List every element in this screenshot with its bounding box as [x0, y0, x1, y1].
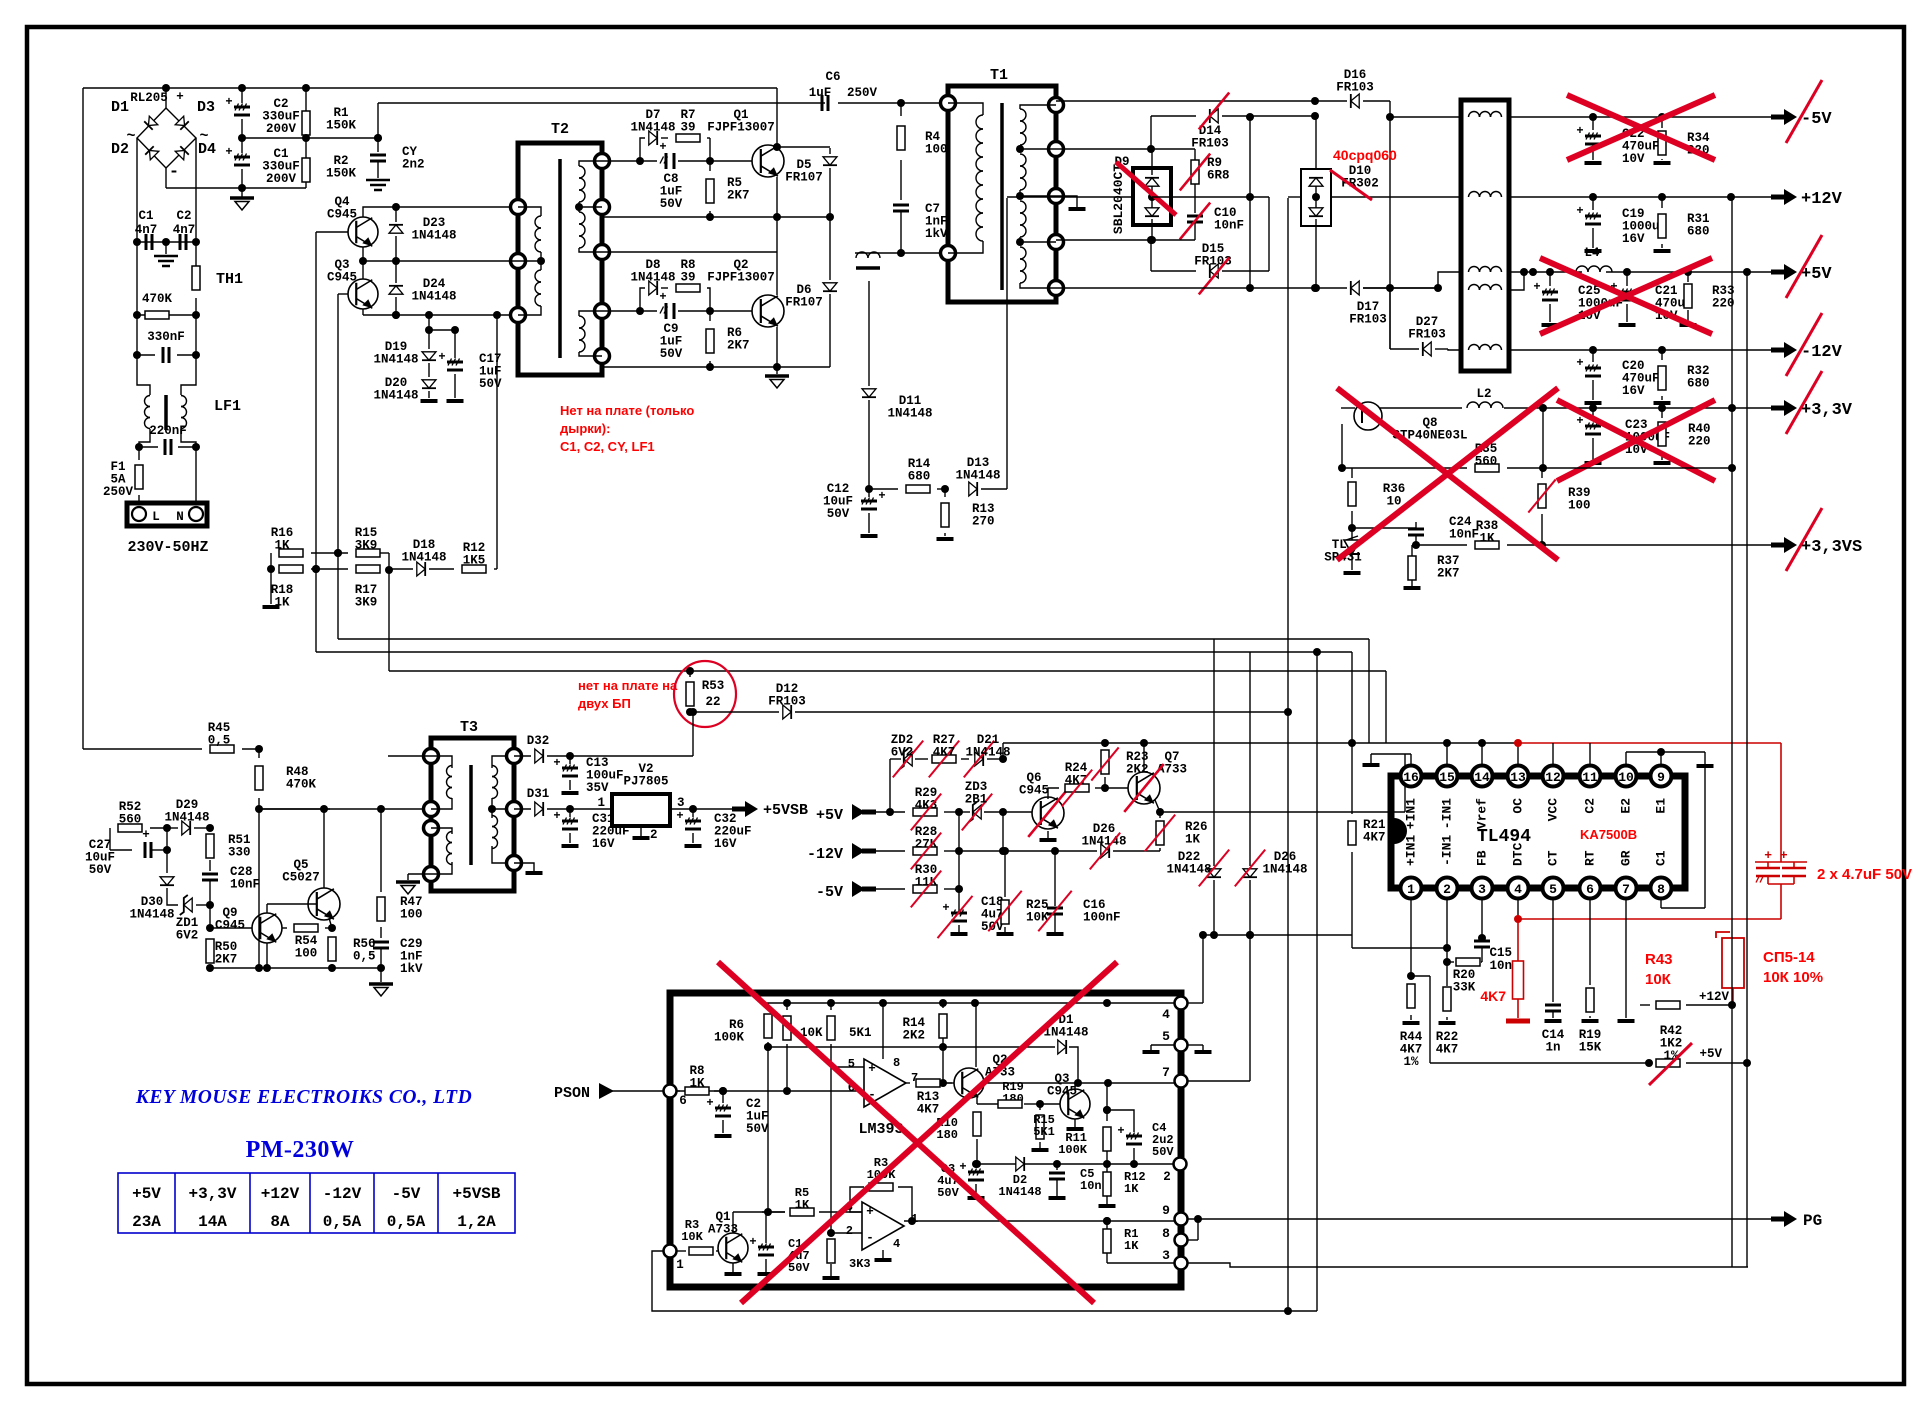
wire Q8 gate/source node: [1338, 464, 1346, 472]
wire T2 pin connections: [363, 260, 518, 262]
svg-text:100: 100: [1568, 499, 1591, 513]
wire Q3/Q4 emitters: [362, 247, 364, 261]
resistor R28 27K: [913, 847, 937, 855]
svg-text:2K2: 2K2: [1126, 763, 1149, 777]
output arrow +3,3VS: [1771, 543, 1784, 548]
wire Q2 collector riser: [975, 1003, 977, 1067]
diode D6 FR107: [829, 217, 831, 280]
svg-text:6V2: 6V2: [891, 746, 914, 760]
wire: [316, 231, 348, 233]
svg-text:50V: 50V: [937, 1186, 959, 1200]
svg-text:0,5: 0,5: [208, 734, 231, 748]
V2 ground: [640, 826, 642, 836]
svg-text:50V: 50V: [479, 377, 502, 391]
TL1 symbol: [1344, 540, 1360, 554]
svg-text:3: 3: [677, 796, 685, 810]
transistor Q1b A733: [718, 1233, 748, 1263]
wire Q5 emitter down: [329, 918, 332, 928]
wire: [838, 102, 948, 104]
diode D30 1N4148: [160, 877, 174, 885]
wire x=1288 vertical: [1287, 198, 1289, 1311]
transistor Q3 C945: [348, 279, 378, 309]
T2 left pins: [511, 200, 526, 215]
T1 center tap ground: [1056, 196, 1077, 207]
svg-text:D31: D31: [527, 787, 550, 801]
svg-text:8: 8: [1162, 1226, 1170, 1241]
svg-text:D32: D32: [527, 734, 550, 748]
svg-text:FR107: FR107: [785, 296, 823, 310]
resistor R45 0,5: [83, 748, 202, 750]
svg-text:4: 4: [1514, 882, 1522, 897]
svg-text:1n: 1n: [1545, 1041, 1560, 1055]
choke winding +12V: [1469, 192, 1480, 197]
zener ZD3 2B1 (crossed): [973, 805, 981, 819]
T3 right coils: [492, 756, 514, 768]
wire: [1351, 528, 1353, 540]
svg-text:2B1: 2B1: [965, 793, 988, 807]
diode D26 1N4148 (crossed): [1249, 652, 1251, 866]
wire: [83, 87, 777, 89]
capacitor 220nF: [164, 439, 167, 455]
wire: [733, 1211, 768, 1213]
red X over C23/R40: [1557, 400, 1715, 481]
svg-text:22: 22: [705, 695, 720, 709]
wire pin4 red: [1517, 899, 1519, 919]
diode D23 1N4148: [395, 207, 397, 222]
T2 right coils: [579, 166, 585, 178]
ground: [421, 399, 438, 403]
svg-text:+: +: [878, 489, 885, 503]
capacitor C1 330uF 200V: [241, 138, 243, 153]
capacitor C15 10n: [1474, 940, 1490, 943]
resistor R12b 1K: [1106, 1164, 1108, 1172]
wire Q8 source down: [1341, 424, 1343, 468]
svg-text:SBL2040CT: SBL2040CT: [1111, 164, 1126, 234]
red slash +3,3VS: [1786, 508, 1822, 571]
svg-text:5K1: 5K1: [1033, 1125, 1055, 1139]
wire y=935 link: [1203, 934, 1352, 936]
resistor R43 (black): [1656, 1001, 1680, 1009]
wire Q8 drain to L2: [1380, 407, 1462, 409]
svg-text:+: +: [1576, 204, 1583, 218]
pin 1 TL494 bottom: [1401, 878, 1422, 899]
resistor 10K: [786, 1003, 788, 1010]
diode D8 1N4148: [640, 288, 645, 311]
svg-text:+: +: [1533, 280, 1540, 294]
svg-text:T2: T2: [551, 121, 569, 138]
svg-text:FR103: FR103: [768, 695, 806, 709]
svg-text:560: 560: [1475, 455, 1498, 469]
svg-text:14: 14: [1474, 770, 1490, 785]
wire Q4 collector top: [363, 207, 518, 217]
svg-text:16V: 16V: [714, 837, 737, 851]
svg-text:100: 100: [925, 143, 948, 157]
svg-text:+12V: +12V: [1699, 990, 1730, 1004]
R51 body: [206, 834, 214, 858]
transistor Q8 STP40NE03L (MOSFET, crossed): [1354, 402, 1382, 430]
pin 9 TL494 top: [1651, 766, 1672, 787]
wire: [337, 294, 339, 639]
svg-text:16V: 16V: [1622, 384, 1645, 398]
wire: [267, 565, 275, 573]
svg-text:1N4148: 1N4148: [887, 407, 932, 421]
diode D14 FR103 (crossed): [1150, 116, 1152, 149]
red wire from pin13: [1518, 742, 1781, 744]
svg-text:Vref: Vref: [1474, 798, 1489, 829]
svg-text:6V2: 6V2: [176, 929, 199, 943]
wire Q9 emitter: [266, 943, 268, 968]
wire mid bus: [242, 137, 378, 139]
svg-text:DTC: DTC: [1510, 842, 1525, 866]
svg-text:8: 8: [893, 1056, 900, 1070]
svg-text:KEY MOUSE ELECTROIKS CO., LTD: KEY MOUSE ELECTROIKS CO., LTD: [135, 1087, 472, 1108]
svg-text:+: +: [225, 145, 232, 159]
svg-text:5: 5: [1549, 882, 1557, 897]
svg-text:-5V: -5V: [816, 884, 843, 901]
wire pin2 down: [1446, 899, 1448, 986]
resistor R22 4K7: [1443, 987, 1451, 1011]
wire pin1 down: [1410, 899, 1412, 976]
svg-text:4K3: 4K3: [915, 799, 938, 813]
svg-text:C5027: C5027: [282, 871, 320, 885]
svg-text:D3: D3: [197, 99, 215, 116]
C27 plates: [144, 842, 147, 858]
wire +5V rail: [1509, 271, 1582, 273]
wire opamp2 out: [904, 1220, 1181, 1222]
svg-text:2n2: 2n2: [402, 158, 425, 172]
output choke L1 box: [1461, 100, 1509, 371]
wire pin16 gnd: [1410, 754, 1412, 765]
T2 left coils: [535, 216, 541, 228]
pin 7 TL494 bottom: [1616, 878, 1637, 899]
red capacitors 2 x 4.7uF 50V: [1755, 861, 1807, 863]
svg-text:10nF: 10nF: [1449, 528, 1479, 542]
wire: [165, 168, 167, 188]
Q6 emitter ground: [1047, 831, 1049, 838]
wire: [139, 429, 150, 447]
svg-text:10: 10: [1618, 770, 1634, 785]
choke winding +5V b: [1469, 285, 1480, 290]
wire LM393 pin3 to x=1748 riser: [1188, 1263, 1748, 1267]
svg-text:FR107: FR107: [785, 171, 823, 185]
resistor R24 4K7 (crossed): [1065, 784, 1089, 792]
wire D9 top: [1151, 149, 1153, 175]
svg-text:5: 5: [848, 1057, 855, 1071]
resistor R25 10K (slashed): [1001, 847, 1009, 855]
wire T3 pin top from R45 node: [388, 755, 431, 757]
svg-text:C945: C945: [1019, 784, 1049, 798]
resistor R44 4K7 1%: [1407, 984, 1415, 1008]
wire pin1 branch: [1411, 975, 1430, 977]
svg-text:OC: OC: [1510, 798, 1525, 814]
svg-text:нет на плате на: нет на плате на: [578, 678, 678, 693]
svg-text:4: 4: [893, 1237, 900, 1251]
wire: [1606, 271, 1774, 273]
wire Q7 collector riser: [1143, 743, 1145, 772]
svg-text:+5V: +5V: [132, 1185, 161, 1203]
svg-text:680: 680: [1687, 225, 1710, 239]
svg-text:KA7500B: KA7500B: [1580, 827, 1637, 842]
svg-text:2: 2: [846, 1224, 853, 1238]
svg-text:220: 220: [1712, 297, 1735, 311]
IC LM393 box: [670, 993, 1181, 1287]
svg-text:+: +: [942, 901, 949, 915]
wire LM393 pin9 to PG: [1188, 1218, 1771, 1220]
wire: [428, 315, 430, 345]
capacitor C28 10nF: [202, 873, 218, 876]
ground: [380, 968, 382, 982]
common-mode choke LF1: [145, 396, 151, 407]
output arrow +12V: [1771, 195, 1784, 200]
svg-text:4: 4: [1162, 1007, 1170, 1022]
capacitor C4 2u2 50V: [1126, 1135, 1142, 1138]
wire: [166, 828, 168, 873]
wire: [602, 310, 640, 312]
wire emitter bus 2: [602, 366, 830, 368]
zener ZD2 6V2 (crossed): [904, 752, 912, 766]
diode D29 1N4148: [182, 821, 190, 835]
capacitor C21 470uF 10V (crossed): [1626, 272, 1628, 286]
svg-text:+: +: [659, 290, 666, 304]
R1b body: [1103, 1217, 1111, 1225]
svg-text:СП5-14: СП5-14: [1763, 949, 1815, 966]
capacitor C9 1uF 50V: [640, 310, 657, 312]
wire: [1194, 184, 1196, 213]
ground: [776, 367, 778, 374]
svg-text:PG: PG: [1803, 1212, 1822, 1230]
resistor 5K1: [830, 1003, 832, 1010]
wire: [137, 241, 196, 243]
svg-text:C1: C1: [1653, 850, 1668, 866]
svg-text:7: 7: [1162, 1065, 1170, 1080]
wire standby top bus y=809: [259, 808, 330, 810]
capacitor C22 470uF 10V (crossed): [1592, 117, 1594, 130]
pin 11 TL494 top: [1580, 766, 1601, 787]
svg-text:15: 15: [1439, 770, 1455, 785]
svg-text:C945: C945: [327, 208, 357, 222]
svg-text:двух БП: двух БП: [578, 696, 631, 711]
capacitor C27 10uF 50V: [110, 849, 132, 851]
capacitor C2 4n7: [179, 234, 182, 250]
thermistor TH1: [192, 266, 200, 290]
svg-text:4K7: 4K7: [1363, 831, 1386, 845]
wire T1 pin4 row: [1056, 239, 1195, 241]
transistor Q4 C945: [348, 217, 378, 247]
red slash -12V: [1786, 313, 1822, 376]
svg-text:33K: 33K: [1453, 981, 1476, 995]
output arrow -12V: [1771, 348, 1784, 353]
resistor R13 270: [944, 489, 946, 497]
svg-text:1N4148: 1N4148: [373, 353, 418, 367]
fuse F1 5A 250V: [138, 447, 140, 460]
pin 2 TL494 bottom: [1437, 878, 1458, 899]
diode D22 1N4148 (crossed): [1213, 639, 1215, 866]
svg-text:1N4148: 1N4148: [998, 1185, 1041, 1199]
wire Q2b emitter down: [976, 1097, 978, 1104]
T1 secondary coils: [1020, 109, 1026, 121]
svg-text:9: 9: [1162, 1203, 1170, 1218]
red slash over D9: [1116, 162, 1176, 215]
svg-text:FR103: FR103: [1191, 137, 1229, 151]
capacitor C7 1nF 1kV: [893, 204, 909, 207]
svg-text:+: +: [1117, 1124, 1124, 1138]
red slash +5V: [1786, 235, 1822, 298]
wire Q1 emitter down: [776, 177, 778, 217]
svg-text:+IN1: +IN1: [1403, 835, 1418, 866]
choke winding +5V a: [1469, 267, 1480, 273]
svg-text:R53: R53: [702, 679, 725, 693]
svg-text:E1: E1: [1653, 798, 1668, 814]
wire: [338, 293, 348, 295]
wire: [1704, 766, 1706, 908]
wire Q6 collector to R24: [1048, 788, 1059, 799]
diode D26 1N4148 (crossed): [959, 850, 1097, 852]
resistor R34 220 (crossed): [1661, 117, 1663, 128]
svg-text:2K7: 2K7: [1437, 567, 1460, 581]
wire top bus y=743 into TL494: [1003, 742, 1517, 744]
wire T2 right mid to Q collector mid: [602, 251, 777, 253]
svg-text:N: N: [176, 510, 184, 524]
resistor R11 100K: [1106, 1083, 1108, 1121]
svg-text:L4: L4: [1584, 246, 1600, 260]
wire: [1107, 1262, 1174, 1264]
wire: [363, 314, 518, 316]
wire: [315, 232, 317, 652]
svg-text:+5V: +5V: [816, 807, 843, 824]
wire: [1002, 743, 1004, 759]
choke winding -12V: [1469, 345, 1480, 351]
wire Q1b collector up: [732, 1212, 734, 1233]
svg-text:4K7: 4K7: [1480, 988, 1506, 1004]
C18 plates: [951, 912, 967, 915]
resistor R48 470K: [258, 749, 260, 758]
svg-text:C945: C945: [327, 271, 357, 285]
svg-text:E2: E2: [1618, 798, 1633, 814]
svg-text:50V: 50V: [1152, 1145, 1174, 1159]
wire: [395, 255, 397, 261]
transistor Q2b A733: [954, 1068, 984, 1098]
wire: [776, 88, 778, 146]
wire Q5 collector up: [323, 809, 325, 888]
wire: [945, 1082, 954, 1084]
wire: [1504, 407, 1774, 409]
red slash -5V: [1786, 80, 1822, 143]
bridge rectifier RL205: [165, 88, 167, 108]
transistor Q2 FJPF13007: [752, 295, 784, 327]
svg-text:14A: 14A: [198, 1213, 227, 1231]
wire pin12 up: [1552, 743, 1554, 765]
wire rows: [270, 552, 272, 554]
svg-text:+: +: [1576, 124, 1583, 138]
svg-text:+3,3V: +3,3V: [1801, 401, 1853, 420]
rectifier D9 SBL2040CT: [1133, 168, 1171, 225]
transistor Q1 FJPF13007: [752, 145, 784, 177]
svg-text:3: 3: [1478, 882, 1486, 897]
wire: [677, 1090, 680, 1092]
wire line B: [378, 102, 825, 104]
capacitor C31 220uF 16V: [569, 809, 571, 817]
svg-text:10К: 10К: [1645, 971, 1672, 988]
wire R12 up to T2 area: [496, 315, 498, 569]
wire Q7 emitter node: [1155, 800, 1160, 812]
wire R43 left: [1640, 1004, 1650, 1006]
wire LM393 pin1 to bottom bus: [652, 1251, 1317, 1311]
svg-text:+3,3V: +3,3V: [188, 1185, 236, 1203]
resistor R16 1K: [279, 549, 303, 557]
wire D10 top: [1315, 116, 1317, 169]
svg-text:-12V: -12V: [1801, 343, 1843, 362]
wire from snubber down: [868, 281, 870, 386]
svg-text:+12V: +12V: [261, 1185, 300, 1203]
svg-text:PM-230W: PM-230W: [246, 1137, 355, 1163]
wire +5VSB out: [693, 808, 734, 810]
svg-text:10nF: 10nF: [1214, 219, 1244, 233]
wire: [408, 873, 431, 875]
diode D2 1N4148: [1016, 1157, 1024, 1171]
svg-text:+: +: [959, 1160, 966, 1174]
capacitor CY 2n2: [377, 103, 379, 152]
svg-text:+IN1: +IN1: [1403, 798, 1418, 829]
svg-text:+: +: [749, 1235, 756, 1249]
svg-text:RL205: RL205: [130, 91, 168, 105]
wire pin13 red node: [1517, 743, 1519, 765]
pin 5 TL494 bottom: [1543, 878, 1564, 899]
wire: [1542, 408, 1544, 468]
svg-text:C6: C6: [825, 70, 840, 84]
svg-text:40cpq060: 40cpq060: [1333, 147, 1397, 163]
wire y=198 common line: [1007, 196, 1133, 198]
wire: [137, 355, 150, 395]
svg-text:+: +: [142, 828, 150, 842]
svg-text:PJ7805: PJ7805: [623, 775, 668, 789]
T2 right pins: [595, 154, 610, 169]
transistor Q9 C945: [252, 913, 282, 943]
svg-text:5K1: 5K1: [849, 1026, 872, 1040]
capacitor C10 10nF (crossed): [1187, 215, 1203, 218]
capacitor C19 1000uF 16V: [1592, 197, 1594, 210]
wire bottom bus standby: [210, 967, 381, 969]
svg-text:FR103: FR103: [1349, 313, 1387, 327]
resistor R4 100: [900, 103, 902, 116]
snubber choke: [856, 252, 868, 258]
wire: [1352, 947, 1447, 949]
LM393 right-side pins: [1175, 997, 1188, 1010]
wire: [1351, 511, 1353, 528]
svg-text:470K: 470K: [142, 292, 173, 306]
svg-text:16: 16: [1403, 770, 1419, 785]
wire: [958, 812, 960, 910]
wire C24 bottom: [1415, 536, 1417, 545]
wire -12V rail: [1509, 349, 1774, 351]
svg-text:0,5A: 0,5A: [387, 1213, 426, 1231]
resistor R40 220: [1661, 408, 1663, 418]
svg-text:FJPF13007: FJPF13007: [707, 121, 775, 135]
wire: [82, 88, 84, 749]
wire pin6 down: [1589, 899, 1591, 985]
svg-text:-5V: -5V: [392, 1185, 421, 1203]
resistor R56 0,5: [328, 937, 336, 961]
resistor R53 22 with red circle: [686, 667, 694, 675]
svg-text:1: 1: [597, 796, 605, 810]
svg-text:D1: D1: [111, 99, 129, 116]
resistor R39 100 (red slashed): [1541, 468, 1543, 478]
C13 gnd: [562, 791, 579, 795]
pin 15 TL494 top: [1437, 766, 1458, 787]
svg-text:дырки):: дырки):: [560, 421, 610, 436]
svg-text:1: 1: [1407, 882, 1415, 897]
wire second bus: [766, 1046, 1055, 1048]
long bus wire y=652: [316, 651, 1352, 653]
